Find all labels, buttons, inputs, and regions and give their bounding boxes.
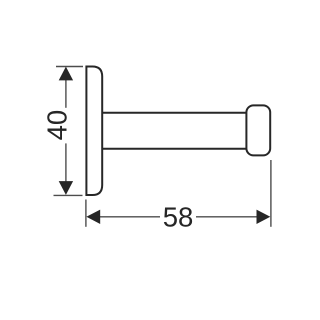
arrowhead left (58 dim): [86, 210, 100, 224]
dimension line 58 (horizontal, two segments): [100, 216, 160, 218]
arrowhead right (58 dim): [257, 210, 271, 224]
arrowhead down (40 dim): [59, 181, 73, 195]
rod bottom line: [102, 148, 247, 150]
end cap (rounded rectangle): [246, 105, 270, 155]
extension line top (40 dim): [56, 66, 83, 68]
wall plate (side view, rounded right corners): [86, 67, 102, 196]
extension line bottom (40 dim): [54, 194, 83, 196]
svg-text:40: 40: [42, 110, 73, 141]
dimension line 40 (vertical, two segments): [65, 80, 67, 108]
svg-text:58: 58: [163, 202, 194, 233]
extension line left (58 dim): [85, 200, 87, 227]
arrowhead up (40 dim): [59, 67, 73, 81]
extension line right (58 dim): [270, 160, 272, 227]
rod top line: [102, 112, 247, 114]
